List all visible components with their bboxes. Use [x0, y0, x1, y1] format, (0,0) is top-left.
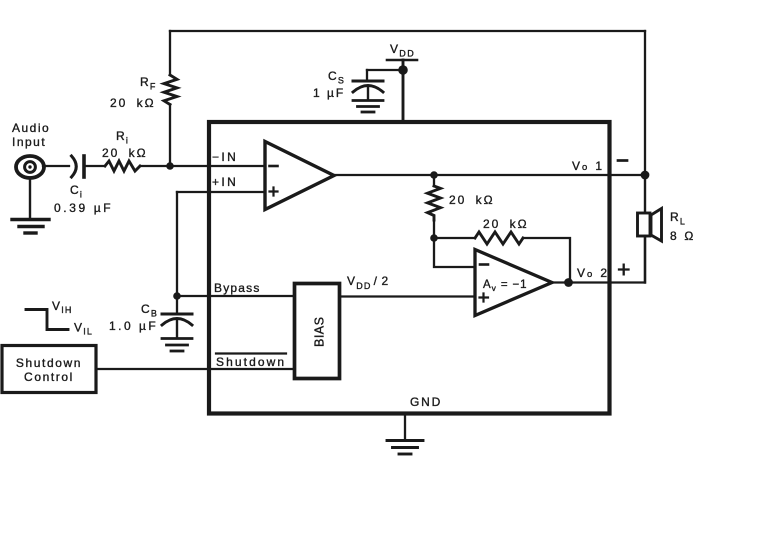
node A junction dot [166, 162, 174, 170]
wire input to Ci [43, 165, 69, 167]
svg-text:Control: Control [24, 370, 74, 384]
node Vo1 external junction dot [641, 171, 650, 180]
svg-text:+IN: +IN [212, 175, 238, 189]
svg-text:1.0 µF: 1.0 µF [109, 319, 158, 333]
resistor RF [110, 31, 177, 166]
svg-text:Shutdown: Shutdown [16, 356, 82, 370]
BIAS box [295, 284, 340, 379]
wire top feedback horizontal [170, 30, 645, 32]
label minus polarity [618, 159, 627, 162]
wire VDD to CS [367, 69, 403, 71]
svg-text:Input: Input [12, 135, 46, 149]
node bypass junction [173, 292, 181, 300]
capacitor CS [313, 69, 383, 100]
wire Ri to node A [140, 165, 170, 167]
node feedback junction [430, 234, 438, 242]
svg-text:Vo1: Vo1 [572, 159, 604, 173]
IC box [209, 122, 610, 414]
ground at audio input [12, 178, 49, 234]
resistor R1 20k vertical [428, 175, 495, 238]
svg-text:20 kΩ: 20 kΩ [449, 193, 495, 207]
svg-text:Av = −1: Av = −1 [483, 279, 527, 293]
wire +IN [177, 191, 265, 193]
wire U2 output Vo2 [552, 237, 645, 283]
wire +IN vertical down to bypass node [176, 192, 178, 296]
wire Ci to Ri [86, 165, 105, 167]
svg-text:8 Ω: 8 Ω [670, 229, 695, 243]
resistor R2 20k feedback [434, 217, 570, 283]
wire BIAS to U2 + input, VDD/2 [340, 295, 475, 297]
svg-text:Bypass: Bypass [214, 281, 261, 295]
label plus polarity [619, 265, 629, 275]
supply VDD terminal [387, 42, 417, 121]
wire node A to -IN [170, 165, 265, 167]
node Vo2 junction dot [564, 278, 573, 287]
label Shutdown with overline [216, 354, 286, 370]
wire right feedback vertical to Vo1 [644, 31, 646, 175]
connector J1 audio input [12, 121, 50, 178]
svg-text:20 kΩ: 20 kΩ [483, 217, 529, 231]
speaker RL [638, 175, 695, 283]
svg-text:20 kΩ: 20 kΩ [110, 96, 156, 110]
op-amp U1 [265, 142, 334, 210]
node Vo1 internal junction [430, 171, 438, 179]
Shutdown Control box [2, 346, 96, 393]
svg-text:−IN: −IN [212, 150, 238, 164]
svg-text:20 kΩ: 20 kΩ [102, 146, 148, 160]
capacitor CB [109, 296, 192, 338]
wire bypass to BIAS [177, 295, 294, 297]
svg-text:Shutdown: Shutdown [216, 355, 286, 369]
resistor Ri [102, 129, 148, 171]
svg-text:Audio: Audio [12, 121, 50, 135]
waveform VIH VIL [26, 299, 93, 337]
svg-text:BIAS: BIAS [313, 317, 327, 348]
ground at GND pin [387, 414, 423, 454]
svg-text:0.39 µF: 0.39 µF [54, 201, 113, 215]
op-amp U2 [475, 250, 552, 316]
wire U1 output to Vo1 [334, 174, 645, 176]
wire to U2 inverting input [434, 238, 475, 267]
svg-text:1 µF: 1 µF [313, 86, 345, 100]
capacitor Ci [54, 156, 113, 215]
ground at CS [353, 101, 383, 113]
wire shutdown control to BIAS [96, 368, 294, 370]
svg-text:Vo2: Vo2 [577, 266, 609, 280]
ground at CB [162, 339, 192, 352]
svg-text:GND: GND [410, 395, 442, 409]
